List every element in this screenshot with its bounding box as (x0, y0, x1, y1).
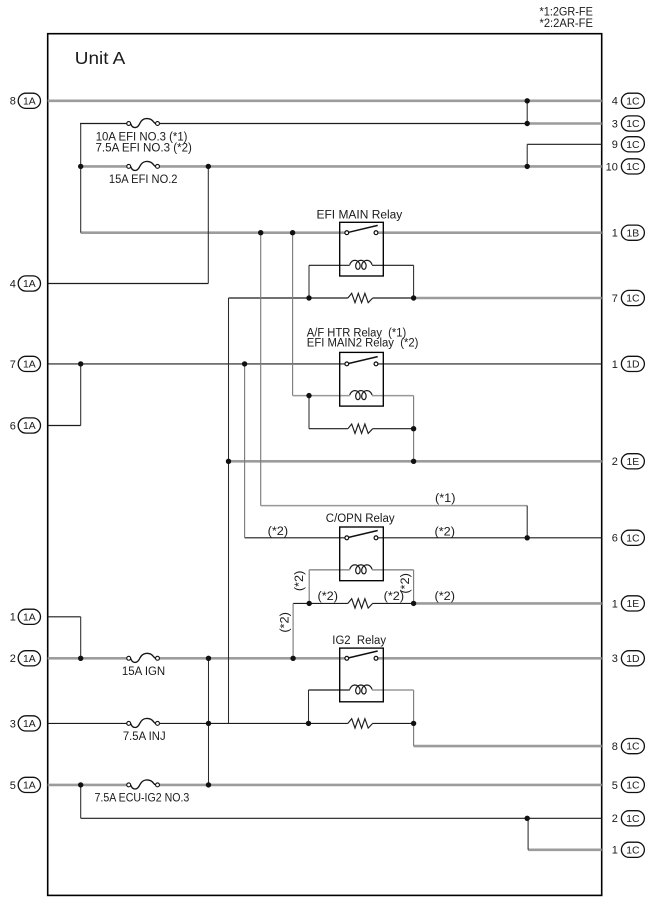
svg-text:(*1): (*1) (435, 493, 456, 505)
svg-text:1: 1 (612, 598, 618, 610)
wire 1(1E) right segment (414, 602, 602, 605)
svg-text:(*2): (*2) (268, 526, 289, 538)
node H (306, 295, 311, 300)
wire vertical 7.5A INJ to resistor row x=228.5 (228, 298, 230, 723)
node U (290, 656, 295, 661)
wire vertical 15A EFI NO.2 out to 4(1A) (207, 166, 209, 283)
svg-text:3: 3 (612, 118, 618, 130)
wire vertical 5(1A) to 2(1C) (80, 785, 82, 818)
wire vertical A/F resistor drop (308, 396, 310, 429)
node C (78, 164, 83, 169)
wire EFI MAIN relay switch row to 1(1B) (81, 231, 345, 234)
node N (226, 459, 231, 464)
wire vertical A/F coil feed x=292.6 (292, 233, 294, 396)
node G (290, 230, 295, 235)
pin 8 1A (left) y=100.8 (10, 93, 41, 108)
wire resistor row to 7(1C) right segment (414, 297, 602, 300)
wire 4(1A) (48, 283, 209, 285)
svg-text:(*2): (*2) (280, 612, 292, 633)
relay EFI MAIN Relay coil (350, 260, 372, 269)
fuse 15A EFI NO.2 (127, 161, 160, 170)
pin 10 1C (right) y=166.4 (606, 159, 645, 174)
svg-text:1B: 1B (627, 228, 640, 239)
wire 2(1A) 15A IGN row to 3(1D) (48, 657, 127, 660)
svg-text:1C: 1C (626, 814, 640, 825)
svg-text:C/OPN Relay: C/OPN Relay (326, 513, 395, 525)
svg-text:*2:2AR-FE: *2:2AR-FE (540, 18, 594, 30)
pin 3 1C (right) y=123.5 (612, 116, 645, 131)
node V (206, 721, 211, 726)
svg-text:5: 5 (612, 780, 618, 792)
svg-text:Unit A: Unit A (75, 48, 126, 68)
pin 4 1A (left) y=283.5 (10, 276, 41, 291)
svg-text:7.5A INJ: 7.5A INJ (123, 731, 166, 743)
wire IG2 coil leads (309, 689, 350, 691)
node X (411, 721, 416, 726)
node D (206, 164, 211, 169)
svg-text:4: 4 (10, 278, 16, 290)
svg-text:1: 1 (612, 228, 618, 240)
node T (206, 656, 211, 661)
wire 6(1A) (48, 425, 81, 427)
pin 1 1C (right) y=849.8 (612, 842, 645, 857)
node E (525, 164, 530, 169)
pin 6 1A (left) y=425.5 (10, 418, 41, 433)
relay C/OPN Relay coil (350, 565, 372, 574)
wire resistor row 7(1C) left (229, 297, 348, 299)
resistor A/F HTR parallel (348, 424, 373, 433)
wire vertical IG2 switch feed x=293.1 (292, 603, 294, 658)
svg-text:*1:2GR-FE: *1:2GR-FE (540, 6, 594, 18)
svg-text:2: 2 (612, 456, 618, 468)
wire 1(1A) (48, 616, 81, 618)
svg-text:(*2): (*2) (435, 591, 456, 603)
node L (306, 393, 311, 398)
wire vertical IG2 coil left drop (308, 690, 310, 723)
svg-text:5: 5 (10, 780, 16, 792)
fuse 7.5A INJ (127, 718, 160, 727)
relay A/F HTR Relay coil (350, 391, 372, 400)
wire to 8(1C) (414, 745, 602, 748)
pin 1 1D (right) y=363.9 (612, 356, 645, 371)
node O (411, 459, 416, 464)
svg-text:2: 2 (612, 813, 618, 825)
svg-text:8: 8 (10, 96, 16, 108)
wire C/OPN switch row to 6(1C) (245, 537, 345, 539)
resistor IG2 parallel (348, 719, 373, 728)
svg-text:1C: 1C (626, 533, 640, 544)
pin 1 1E (right) y=603.4 (612, 596, 645, 611)
svg-text:(*2): (*2) (318, 591, 339, 603)
svg-text:2: 2 (10, 653, 16, 665)
pin 7 1A (left) y=363.9 (10, 356, 41, 371)
svg-text:1C: 1C (626, 742, 640, 753)
svg-text:1: 1 (612, 359, 618, 371)
node Z (206, 782, 211, 787)
relay C/OPN Relay box (340, 527, 384, 581)
node J (78, 361, 83, 366)
pin 3 1A (left) y=723.4 (10, 716, 41, 731)
wire vertical (*1) feed x=260.7 (260, 233, 262, 506)
svg-text:1D: 1D (626, 360, 639, 371)
resistor C/OPN parallel (348, 599, 373, 608)
node I (411, 295, 416, 300)
svg-text:EFI MAIN2 Relay (*2): EFI MAIN2 Relay (*2) (307, 338, 419, 350)
fuse 7.5A ECU-IG2 NO.3 (127, 780, 160, 789)
node K (242, 361, 247, 366)
wire vertical 1(1A) join (80, 617, 82, 659)
wire 3(1A) 7.5A INJ row (48, 722, 127, 724)
svg-text:1A: 1A (23, 279, 36, 290)
svg-text:1: 1 (612, 845, 618, 857)
svg-text:1C: 1C (626, 845, 640, 856)
svg-text:7: 7 (10, 359, 16, 371)
wire 7(1A) to 1(1D) A/F HTR switch row (48, 363, 345, 365)
relay C/OPN Relay switch (345, 531, 378, 540)
svg-text:1D: 1D (626, 654, 639, 665)
wire vertical 9(1C)-10(1C) join (526, 144, 528, 166)
wire vertical fuse feed x=80.7 top (80, 124, 82, 233)
svg-text:1A: 1A (23, 612, 36, 623)
pin 2 1C (right) y=818.3 (612, 811, 645, 826)
wire A/F HTR coil leads (293, 395, 350, 397)
svg-text:1E: 1E (627, 457, 640, 468)
svg-text:10: 10 (606, 161, 618, 173)
wire vertical A/F coil right drop to 2(1E) (413, 396, 415, 462)
wire vertical fuse outputs join x=208.5 (208, 658, 210, 785)
wire vertical 6(1A) join (80, 364, 82, 426)
relay A/F HTR Relay switch (345, 357, 378, 366)
pin 8 1C (right) y=746.1 (612, 739, 645, 754)
relay EFI MAIN Relay switch (345, 225, 378, 234)
relay A/F HTR Relay box (340, 352, 384, 406)
wire vertical 4(1C)-3(1C) join (526, 101, 528, 124)
wire vertical 2(1C) to 1(1C) (527, 818, 529, 850)
svg-text:(*2): (*2) (435, 526, 456, 538)
wire to 1(1C) (528, 848, 602, 851)
wire vertical C/OPN coil right drop (413, 570, 415, 604)
pin 9 1C (right) y=144.3 (612, 137, 645, 152)
wire fuse 15A EFI NO.2 row to 10(1C) (81, 165, 127, 168)
resistor EFI MAIN parallel (348, 293, 373, 302)
svg-text:(*2): (*2) (400, 573, 412, 594)
svg-text:3: 3 (10, 718, 16, 730)
svg-text:4: 4 (612, 96, 618, 108)
svg-text:1C: 1C (626, 119, 640, 130)
node R (411, 601, 416, 606)
node P (525, 535, 530, 540)
wire EFI MAIN coil leads (309, 264, 350, 266)
svg-text:1A: 1A (23, 781, 36, 792)
pin 2 1E (right) y=461.3 (612, 454, 645, 469)
node Y (78, 782, 83, 787)
svg-text:3: 3 (612, 653, 618, 665)
svg-text:1C: 1C (626, 781, 640, 792)
relay IG2 Relay switch (345, 651, 378, 660)
svg-text:1: 1 (10, 612, 16, 624)
fuse 15A IGN (127, 653, 160, 662)
svg-text:1C: 1C (626, 140, 640, 151)
svg-text:1C: 1C (626, 96, 640, 107)
wire 5(1A) 7.5A ECU-IG2 row to 5(1C) (48, 784, 127, 787)
relay EFI MAIN Relay box (340, 222, 384, 276)
svg-text:15A IGN: 15A IGN (122, 666, 165, 678)
wire to 9(1C) (527, 143, 602, 145)
svg-text:1A: 1A (23, 719, 36, 730)
relay IG2 Relay coil (350, 685, 372, 694)
wire (*1) branch y=505.6 (261, 505, 528, 507)
wire 1(1E) resistor row (293, 602, 348, 604)
svg-text:1A: 1A (23, 421, 36, 432)
svg-text:1A: 1A (23, 654, 36, 665)
wire vertical C/OPN feed x=244.6 (244, 364, 246, 538)
svg-text:IG2 Relay: IG2 Relay (332, 635, 386, 647)
pin 4 1C (right) y=100.8 (612, 93, 645, 108)
pin 3 1D (right) y=658.3 (612, 651, 645, 666)
svg-text:1A: 1A (23, 360, 36, 371)
wire vertical IG2 coil right drop to 8(1C) (413, 690, 415, 746)
svg-text:7.5A EFI NO.3 (*2): 7.5A EFI NO.3 (*2) (96, 142, 193, 154)
node S (78, 656, 83, 661)
svg-text:6: 6 (10, 420, 16, 432)
pin 7 1C (right) y=298.0 (612, 290, 645, 305)
wire to 2(1E) (229, 460, 602, 463)
svg-text:7.5A ECU-IG2 NO.3: 7.5A ECU-IG2 NO.3 (95, 793, 190, 805)
wire to 3(1C) right segment (527, 122, 602, 125)
svg-text:1E: 1E (627, 599, 640, 610)
svg-text:1C: 1C (626, 294, 640, 305)
wire vertical (*1) drop to 6(1C) (526, 506, 528, 538)
pin 6 1C (right) y=537.8 (612, 530, 645, 545)
svg-text:6: 6 (612, 533, 618, 545)
wire A/F HTR resistor row (309, 428, 348, 430)
node B (525, 121, 530, 126)
pin 5 1A (left) y=784.9 (10, 777, 41, 792)
svg-text:15A EFI NO.2: 15A EFI NO.2 (109, 174, 178, 186)
node Q (307, 601, 312, 606)
pin 5 1C (right) y=784.9 (612, 777, 645, 792)
svg-text:1C: 1C (626, 162, 640, 173)
wire vertical EFI MAIN coil left drop (308, 265, 310, 298)
node M (411, 426, 416, 431)
pin 1 1B (right) y=232.7 (612, 225, 645, 240)
svg-text:(*2): (*2) (294, 571, 306, 592)
relay IG2 Relay box (340, 648, 384, 702)
wire fuse EFI NO.3 row (80, 123, 127, 125)
wire to 2(1C) (81, 817, 602, 819)
node A (525, 98, 530, 103)
pin 2 1A (left) y=658.3 (10, 651, 41, 666)
wire vertical EFI MAIN coil right drop (413, 265, 415, 298)
svg-text:8: 8 (612, 741, 618, 753)
fuse EFI NO.3 (127, 119, 160, 128)
wire 8(1A) to 4(1C) y=100.8 (48, 100, 602, 103)
node AA (525, 816, 530, 821)
node W (306, 721, 311, 726)
svg-text:EFI MAIN Relay: EFI MAIN Relay (317, 209, 403, 221)
svg-text:1A: 1A (23, 96, 36, 107)
wire C/OPN coil leads (309, 569, 350, 571)
wire vertical C/OPN coil left drop (308, 570, 310, 604)
node F (258, 230, 263, 235)
svg-text:9: 9 (612, 139, 618, 151)
svg-text:7: 7 (612, 293, 618, 305)
pin 1 1A (left) y=616.8 (10, 609, 41, 624)
